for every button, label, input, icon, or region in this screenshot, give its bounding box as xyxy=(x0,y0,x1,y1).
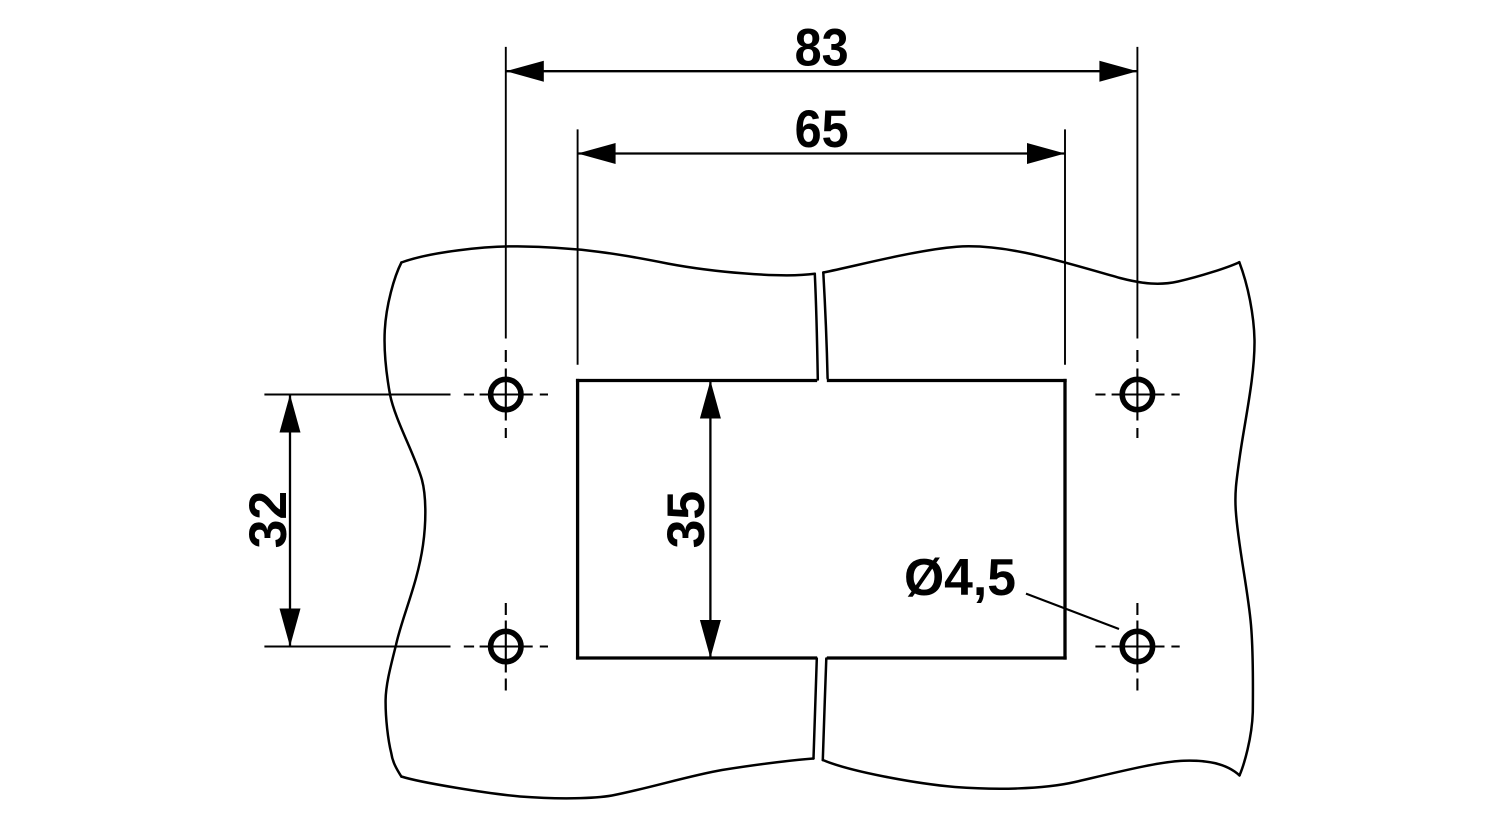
svg-text:35: 35 xyxy=(657,491,716,549)
extension lines xyxy=(264,47,1137,647)
centerline horizontal bottom-left hole (right of ext line) xyxy=(464,645,548,647)
extension line 83 right xyxy=(1136,47,1138,339)
centerline vertical bottom-right hole xyxy=(1136,603,1138,691)
mounting hole top-left xyxy=(491,379,521,409)
arrowhead 35 top xyxy=(700,381,721,419)
panel left piece right break edge upper xyxy=(815,274,818,380)
dimension line 32 xyxy=(289,395,291,647)
centerline horizontal top-left hole (right of ext line) xyxy=(464,393,548,395)
arrowhead 83 right xyxy=(1099,61,1137,82)
center lines (dash-dot) xyxy=(464,350,1180,691)
panel right piece right edge xyxy=(1235,262,1254,775)
extension line 65 right xyxy=(1064,129,1066,364)
cutout top edge right part xyxy=(829,379,1066,382)
cutout left edge xyxy=(576,381,579,659)
panel left piece bottom edge xyxy=(401,759,813,799)
arrowhead 65 left xyxy=(578,143,616,164)
mounting hole top-right xyxy=(1122,379,1152,409)
svg-text:32: 32 xyxy=(239,491,298,549)
panel right piece left break edge lower xyxy=(823,659,827,761)
panel right piece left break edge upper xyxy=(823,273,827,379)
extension line 32 bottom xyxy=(264,646,450,648)
panel left piece top edge xyxy=(401,246,814,275)
extension line 65 left xyxy=(577,129,579,364)
cutout rectangle (thick edges, interrupted at break) xyxy=(578,381,1065,659)
svg-text:65: 65 xyxy=(795,100,849,159)
cutout bottom edge left part xyxy=(578,656,816,659)
dimension line 65 xyxy=(578,152,1065,154)
mounting hole bottom-left xyxy=(491,631,521,661)
centerline vertical top-left hole xyxy=(505,350,507,438)
arrowhead 32 bottom xyxy=(280,609,301,647)
leader line from Ø4,5 to bottom-right hole xyxy=(1026,594,1119,629)
centerline vertical top-right hole xyxy=(1136,350,1138,438)
arrowhead 35 bottom xyxy=(700,620,721,658)
panel left piece outline xyxy=(385,246,818,798)
arrowhead 83 left xyxy=(506,61,544,82)
panel left piece left edge xyxy=(385,263,426,777)
extension line 83 left xyxy=(505,47,507,339)
cutout top edge left part xyxy=(578,379,816,382)
arrowhead 65 right xyxy=(1027,143,1065,164)
panel right piece top edge xyxy=(823,246,1239,283)
panel left piece right break edge lower xyxy=(814,659,817,759)
centerline horizontal top-right hole xyxy=(1095,393,1179,395)
arrowhead 32 top xyxy=(280,395,301,433)
centerline vertical bottom-left hole xyxy=(505,603,507,691)
centerline horizontal bottom-right hole xyxy=(1095,645,1179,647)
cutout bottom edge right part xyxy=(829,656,1066,659)
mounting hole bottom-right xyxy=(1122,631,1152,661)
cutout right edge xyxy=(1063,381,1066,659)
extension line 32 top xyxy=(264,394,450,396)
panel right piece outline xyxy=(823,246,1255,788)
dimension line 83 xyxy=(506,70,1138,72)
svg-text:83: 83 xyxy=(795,19,849,78)
svg-text:Ø4,5: Ø4,5 xyxy=(904,549,1016,607)
dimension line 35 xyxy=(709,381,711,659)
panel right piece bottom edge xyxy=(823,760,1240,789)
